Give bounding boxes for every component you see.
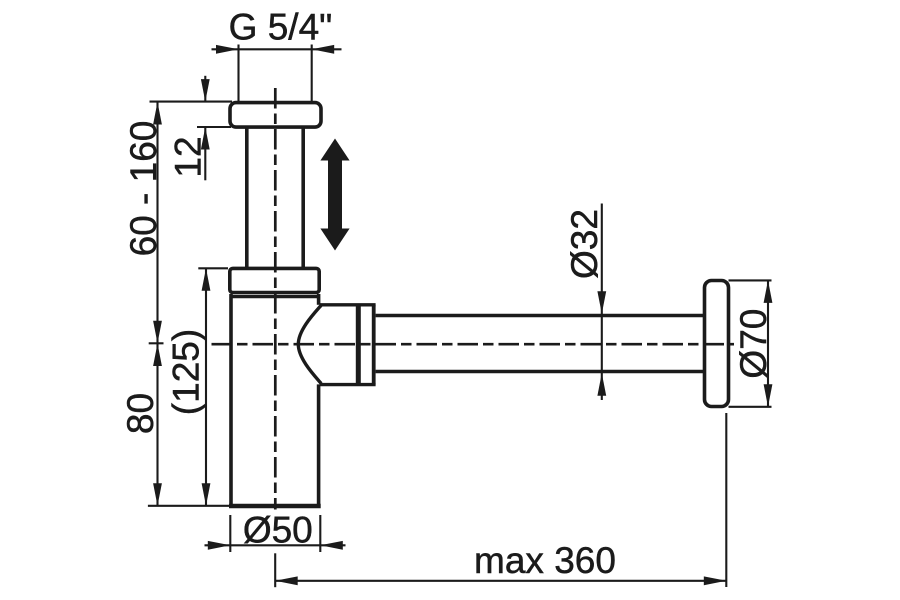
svg-text:Ø32: Ø32 [564, 209, 605, 279]
svg-text:max 360: max 360 [474, 540, 616, 581]
svg-text:Ø70: Ø70 [733, 309, 774, 379]
svg-text:80: 80 [120, 393, 161, 434]
svg-text:(125): (125) [166, 329, 207, 415]
svg-text:G 5/4": G 5/4" [229, 7, 333, 48]
svg-text:12: 12 [168, 136, 209, 177]
svg-text:60 - 160: 60 - 160 [123, 121, 164, 257]
svg-text:Ø50: Ø50 [243, 510, 313, 551]
